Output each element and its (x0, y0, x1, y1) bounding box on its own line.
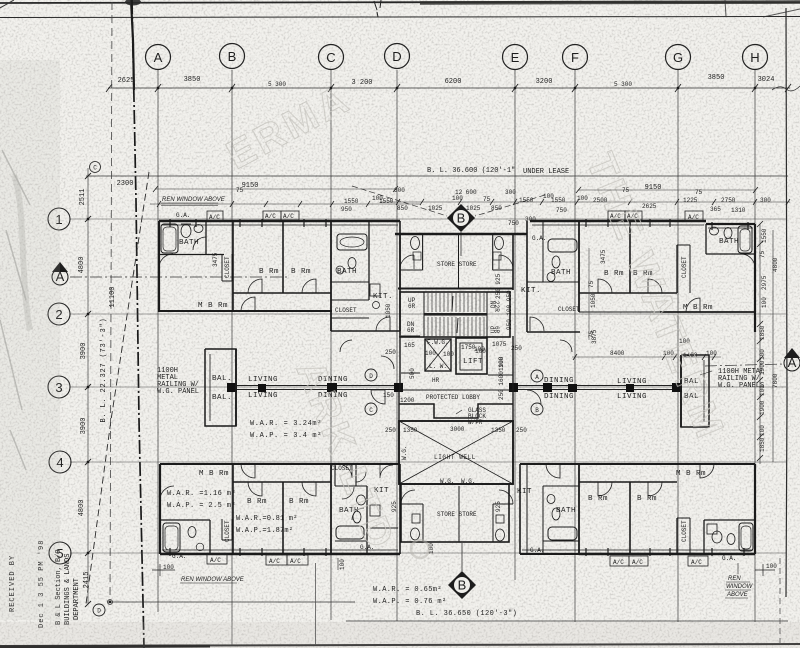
svg-text:B: B (535, 407, 539, 414)
svg-text:75: 75 (588, 280, 595, 288)
svg-text:BATH: BATH (551, 269, 571, 277)
svg-text:A/C: A/C (632, 559, 643, 566)
svg-text:BATH: BATH (337, 268, 357, 276)
svg-text:75: 75 (588, 330, 595, 338)
scan artifact: small diagonal top-left (0, 0, 14, 8)
light well box with cross (399, 421, 513, 484)
svg-text:B Rm: B Rm (637, 495, 657, 503)
svg-text:LIVING: LIVING (248, 392, 278, 400)
grid vertical line E (514, 70, 516, 580)
dashed vertical scan line bottom right (779, 558, 781, 645)
svg-text:100: 100 (577, 195, 588, 202)
svg-text:250 925: 250 925 (495, 273, 502, 299)
upper dim chain ticks (157, 199, 790, 207)
svg-text:DINING: DINING (544, 377, 574, 385)
svg-text:A: A (788, 355, 797, 370)
svg-text:9150: 9150 (645, 184, 662, 192)
store toilets upper center right (493, 237, 513, 270)
handwritten note bottom-left (180, 577, 245, 583)
svg-text:100: 100 (425, 350, 436, 357)
svg-text:D: D (97, 608, 101, 615)
svg-text:A/C: A/C (283, 213, 294, 220)
window inner line bottom wall left wing (162, 549, 398, 551)
dashed leader to diamond B top left (352, 186, 447, 216)
grid row line 3 (70, 386, 786, 388)
svg-text:100: 100 (339, 559, 346, 570)
grid circle G (666, 45, 691, 70)
svg-text:KIT: KIT (517, 488, 532, 496)
svg-text:CLOSET: CLOSET (558, 306, 580, 313)
a/c boxes lower left (207, 554, 308, 565)
window mullion ticks bottom (170, 548, 744, 556)
left margin pencil streaks (0, 150, 30, 470)
datum line bottom-left with circle (108, 600, 356, 605)
balcony left (205, 349, 236, 426)
svg-text:BAL.: BAL. (212, 394, 232, 402)
section marker triangle A right (705, 348, 800, 371)
svg-text:A: A (535, 374, 539, 381)
extra vertical scan line bottom center (315, 563, 317, 645)
building: lower band left wing walls (160, 464, 400, 554)
scan artifact: right edge vertical line (786, 8, 787, 597)
svg-text:6200: 6200 (445, 78, 462, 86)
glass block label (456, 407, 486, 426)
svg-text:250: 250 (385, 427, 396, 434)
grid circle 5 (49, 542, 71, 564)
svg-text:ABOVE: ABOVE (726, 592, 749, 598)
svg-text:1550: 1550 (519, 197, 534, 204)
svg-text:100: 100 (452, 195, 463, 202)
svg-text:W.A.R.=0.81 m²: W.A.R.=0.81 m² (236, 515, 298, 523)
9150 dim line left (153, 186, 398, 192)
property line: dark dash-dot from top to bottom (132, 0, 144, 648)
svg-text:100: 100 (474, 346, 485, 353)
svg-text:300: 300 (394, 187, 405, 194)
svg-text:3200: 3200 (536, 78, 553, 86)
building: lower band right column walls (520, 464, 579, 554)
svg-text:2300: 2300 (117, 180, 134, 188)
svg-text:750: 750 (556, 207, 567, 214)
WAR/WAP living area (250, 420, 322, 440)
svg-text:22R: 22R (493, 301, 500, 312)
svg-text:C: C (326, 50, 335, 65)
svg-text:925: 925 (391, 501, 398, 512)
door arcs corridor (340, 340, 800, 404)
grid circle 2 (48, 303, 70, 325)
svg-text:D: D (392, 49, 401, 64)
handwritten note top-left: new window above (161, 197, 226, 206)
svg-text:LIVING: LIVING (617, 393, 647, 401)
svg-text:LIFT: LIFT (463, 358, 483, 366)
svg-text:B Rm: B Rm (588, 495, 608, 503)
svg-text:G.A.: G.A. (176, 212, 190, 219)
svg-text:3850: 3850 (184, 76, 201, 84)
grid vertical line A (157, 70, 159, 612)
faint watermark diagonal (220, 76, 733, 557)
svg-text:A/C: A/C (209, 214, 220, 221)
right dim chain ticks (757, 221, 763, 461)
grid circle E (503, 45, 528, 70)
svg-text:W.A.R. =1.16 m²: W.A.R. =1.16 m² (167, 490, 236, 498)
svg-text:3000: 3000 (450, 426, 465, 433)
svg-text:300: 300 (760, 197, 771, 204)
grid row line 4 (70, 461, 786, 463)
svg-text:4800: 4800 (78, 257, 86, 274)
left dim chain vertical line x=88 (87, 168, 89, 604)
door arcs lower band (160, 464, 714, 520)
svg-text:1025: 1025 (466, 205, 481, 212)
svg-text:F: F (571, 50, 579, 65)
grid vertical line F (574, 70, 576, 622)
svg-text:BATH: BATH (556, 507, 576, 515)
svg-text:850: 850 (397, 205, 408, 212)
building: upper band right wing walls (530, 221, 755, 332)
svg-text:300: 300 (525, 216, 536, 223)
svg-text:A/C: A/C (269, 558, 280, 565)
svg-text:G: G (673, 50, 683, 65)
grid circle H (743, 45, 768, 70)
bath fixtures upper-right: sink toilet tub (710, 226, 753, 253)
svg-text:F.W.G.: F.W.G. (427, 339, 449, 346)
svg-text:1550: 1550 (379, 198, 394, 205)
9150 dim line right (576, 187, 758, 193)
svg-text:BATH: BATH (179, 239, 199, 247)
svg-text:B Rm: B Rm (604, 270, 624, 278)
WAR/WAP lower left 2 (236, 515, 298, 535)
top dimension line (108, 87, 790, 89)
svg-text:100: 100 (759, 385, 766, 396)
store mid divider (458, 234, 460, 288)
a/c boxes upper right wing (608, 211, 703, 221)
grid vertical line C (330, 70, 332, 620)
svg-text:250: 250 (511, 345, 522, 352)
circled door letter D (365, 369, 377, 381)
corridor lower wall line (236, 389, 681, 391)
svg-text:2625: 2625 (118, 77, 135, 85)
building: lower band right wing walls (520, 464, 755, 554)
svg-text:B Rm: B Rm (247, 498, 267, 506)
node circle c top-left (90, 162, 101, 173)
store toilets upper center left (400, 237, 421, 270)
building: upper band outer walls left wing (159, 221, 400, 331)
svg-text:100: 100 (759, 425, 766, 436)
svg-text:BATH: BATH (719, 238, 739, 246)
svg-text:500: 500 (409, 368, 416, 379)
svg-text:W.A.P. = 2.5 m²: W.A.P. = 2.5 m² (167, 502, 236, 510)
circled door letter B (531, 403, 543, 415)
svg-text:REN WINDOW ABOVE: REN WINDOW ABOVE (162, 197, 226, 203)
grid circle F (563, 45, 588, 70)
svg-text:W.A.P.=1.87m²: W.A.P.=1.87m² (236, 527, 293, 535)
svg-text:KIT.: KIT. (373, 293, 393, 301)
railing note left (157, 367, 199, 396)
WAR/WAP bottom center (373, 586, 447, 606)
svg-text:1550: 1550 (761, 228, 768, 243)
svg-text:1025: 1025 (428, 205, 443, 212)
squiggle right of H on dim line (772, 86, 800, 91)
svg-text:M B Rm: M B Rm (676, 470, 706, 478)
svg-text:H: H (750, 50, 759, 65)
circled door letter C (365, 403, 377, 415)
railing note right (718, 368, 764, 390)
grid row line 5 (70, 552, 786, 554)
svg-text:B Rm: B Rm (289, 498, 309, 506)
upper dim texts cluster (236, 187, 771, 227)
svg-text:L. W.: L. W. (429, 363, 447, 370)
bath fixtures lower mid-left (336, 464, 393, 539)
grid circle A (146, 45, 171, 70)
scan artifact: blob at top of heavy line (125, 0, 141, 6)
building: upper band right column walls (527, 221, 580, 332)
svg-text:DEPARTMENT: DEPARTMENT (73, 578, 81, 620)
svg-text:B: B (457, 211, 466, 226)
svg-text:W.G. PANEL: W.G. PANEL (157, 388, 199, 396)
svg-text:3024: 3024 (758, 76, 775, 84)
leader 100 bottom-left (152, 564, 175, 576)
svg-text:W.G.: W.G. (401, 446, 408, 460)
svg-text:W.A.P. = 0.76 m²: W.A.P. = 0.76 m² (373, 598, 447, 606)
svg-text:1310: 1310 (731, 207, 746, 214)
kitchen fixtures lower right column (547, 495, 577, 541)
stairs block (400, 292, 510, 337)
svg-text:M B Rm: M B Rm (198, 302, 228, 310)
svg-text:1200: 1200 (400, 397, 415, 404)
svg-text:3900: 3900 (80, 418, 88, 435)
svg-text:LIGHT WELL: LIGHT WELL (434, 454, 476, 461)
right dim chain vertical lines (760, 224, 773, 464)
svg-text:4800: 4800 (772, 257, 779, 272)
svg-text:1550: 1550 (551, 197, 566, 204)
svg-text:W.A.P. = 3.4 m²: W.A.P. = 3.4 m² (250, 432, 322, 440)
mid dim texts right (610, 338, 717, 359)
svg-text:5 300: 5 300 (614, 81, 632, 88)
kitchen upper-left fixtures (370, 284, 380, 309)
dashed leader to diamond B top right (475, 195, 545, 216)
svg-text:B. L. 36.600 (120'-1": B. L. 36.600 (120'-1" (427, 167, 515, 175)
svg-text:3900: 3900 (80, 343, 88, 360)
svg-text:100: 100 (443, 351, 454, 358)
section marker diamond B top (447, 204, 475, 256)
svg-text:W.A.R. = 0.65m²: W.A.R. = 0.65m² (373, 586, 442, 594)
svg-text:2415: 2415 (83, 572, 91, 589)
a/c boxes upper left wing (263, 211, 299, 220)
svg-text:1075: 1075 (492, 341, 507, 348)
svg-text:75: 75 (483, 196, 491, 203)
left dim chain ticks (85, 173, 91, 607)
corridor upper wall line (236, 385, 681, 387)
dim cluster near D grid (383, 342, 415, 404)
svg-text:1850: 1850 (759, 325, 766, 340)
svg-text:75: 75 (759, 250, 766, 258)
svg-text:A/C: A/C (265, 213, 276, 220)
bath fixtures upper-left: sink (194, 225, 203, 233)
svg-text:1225: 1225 (683, 197, 698, 204)
svg-text:100: 100 (766, 563, 777, 570)
svg-text:3475: 3475 (212, 252, 219, 267)
svg-text:3475: 3475 (600, 249, 607, 264)
svg-text:365: 365 (710, 206, 721, 213)
svg-text:250: 250 (385, 349, 396, 356)
svg-text:75: 75 (236, 187, 244, 194)
section marker diamond B bottom (448, 543, 476, 599)
svg-text:BUILDINGS & LANDS: BUILDINGS & LANDS (64, 554, 72, 625)
scan artifact: top tick marks near x=375 (374, 0, 381, 17)
svg-text:1900: 1900 (759, 360, 766, 375)
grid row line 1 (70, 218, 786, 220)
bath fixtures mid-left: tub horizontal (337, 234, 367, 250)
grid circle 3 (48, 376, 70, 398)
svg-text:B: B (458, 578, 467, 593)
svg-text:3850: 3850 (708, 74, 725, 82)
scan artifact: bottom-left darker segment (0, 646, 210, 647)
svg-text:CLOSET: CLOSET (681, 256, 688, 278)
mid dim line right (8400 row) (572, 354, 721, 360)
svg-text:1550: 1550 (344, 198, 359, 205)
window inner line top wall right wing (532, 225, 753, 228)
left boundary small vertical line x=110 (110, 2, 112, 601)
svg-text:HR: HR (432, 377, 440, 384)
grid vertical line D (396, 70, 398, 621)
protected lobby walls (399, 390, 513, 421)
svg-text:G.A.: G.A. (530, 547, 544, 554)
svg-text:925: 925 (495, 501, 502, 512)
svg-text:LIVING: LIVING (248, 376, 278, 384)
circled door letter A (531, 370, 543, 382)
grid vertical line G (677, 70, 679, 622)
svg-text:1350: 1350 (403, 427, 418, 434)
svg-text:4800: 4800 (78, 500, 86, 517)
svg-text:6R: 6R (408, 303, 416, 310)
svg-text:6R: 6R (493, 326, 500, 334)
bath fixtures upper-left: tub (161, 224, 178, 253)
svg-text:CLOSET: CLOSET (224, 256, 231, 278)
scan artifact: top dark streak right (420, 2, 800, 3)
window inner line bottom wall right wing (522, 549, 753, 551)
scan artifact: top horizontal line 1 (0, 2, 800, 3)
door arcs upper band (159, 237, 800, 331)
grid vertical line H (754, 70, 756, 622)
right dim chain rotated texts (759, 228, 779, 452)
svg-text:250 1600 100: 250 1600 100 (498, 356, 505, 400)
bottom lease line (346, 620, 788, 622)
svg-text:A/C: A/C (613, 559, 624, 566)
svg-text:165: 165 (404, 342, 415, 349)
svg-text:100: 100 (759, 349, 766, 360)
svg-text:CLOSET: CLOSET (681, 520, 688, 542)
bath fixtures upper-left: toilet (181, 224, 191, 238)
svg-text:6R: 6R (407, 327, 415, 334)
a/c boxes lower right (610, 556, 708, 566)
scan artifact: top-left vertical heavy line (131, 0, 134, 90)
svg-text:G.A.: G.A. (532, 235, 546, 242)
svg-text:A/C: A/C (688, 214, 699, 221)
svg-text:B Rm: B Rm (259, 268, 279, 276)
svg-text:950: 950 (341, 206, 352, 213)
section marker triangle A left (52, 262, 290, 285)
svg-text:5 300: 5 300 (268, 81, 286, 88)
svg-text:STORE STORE: STORE STORE (437, 261, 477, 268)
svg-text:CLOSET: CLOSET (224, 520, 231, 542)
svg-text:3 200: 3 200 (351, 79, 372, 87)
svg-text:A/C: A/C (691, 559, 702, 566)
grid circle D (385, 44, 410, 69)
edge gray tint left (0, 60, 60, 620)
svg-text:2975: 2975 (761, 275, 768, 290)
store block below light well (401, 484, 513, 542)
node circle D bottom-left (93, 604, 105, 616)
svg-text:1050: 1050 (590, 293, 597, 308)
upper dim chain line (150, 202, 790, 204)
grid row line 2 (70, 313, 786, 315)
grid circle B (220, 44, 245, 69)
svg-text:UNDER LEASE: UNDER LEASE (523, 168, 569, 176)
svg-text:100: 100 (706, 350, 717, 357)
bath fixtures right column upper (547, 239, 577, 282)
svg-text:REN: REN (728, 576, 741, 582)
svg-text:2750: 2750 (721, 197, 736, 204)
WAR/WAP lower left 1 (167, 490, 236, 510)
svg-text:250: 250 (516, 427, 527, 434)
svg-text:1900: 1900 (759, 400, 766, 415)
light well dims (385, 426, 527, 434)
svg-text:1350: 1350 (491, 427, 506, 434)
balcony right (681, 355, 709, 427)
window mullion ticks top left wing (170, 219, 326, 227)
svg-text:B Rm: B Rm (291, 268, 311, 276)
svg-text:100: 100 (163, 564, 174, 571)
W.G. shaft with cross (425, 339, 451, 371)
railing leader right (700, 371, 712, 375)
corridor junction blocks (227, 383, 682, 392)
left margin smudge (14, 175, 30, 330)
junction dots on top dimension line (157, 87, 756, 89)
svg-text:2511: 2511 (79, 189, 87, 206)
rotated 100 dim near center bottom (338, 558, 346, 570)
edge gray tint bottom (0, 622, 800, 648)
grid circle 1 (48, 208, 70, 230)
svg-text:100: 100 (761, 297, 768, 308)
junction dots on left grid rows (87, 218, 111, 603)
svg-text:B. L. 22.327 (73'-3"): B. L. 22.327 (73'-3") (100, 317, 108, 422)
svg-text:STORE STORE: STORE STORE (437, 511, 477, 518)
building: upper band center core walls (395, 234, 527, 290)
svg-text:W/FR: W/FR (468, 419, 483, 426)
svg-text:E: E (511, 50, 520, 65)
bath fixtures lower-left: tub toilet (163, 523, 204, 552)
svg-text:1050: 1050 (385, 303, 392, 318)
svg-text:A/C: A/C (290, 558, 301, 565)
svg-text:300: 300 (505, 189, 516, 196)
handwritten note bottom-right 3 lines (725, 563, 754, 598)
bath fixtures lower-right (707, 523, 753, 551)
window inner line top wall left wing (162, 224, 398, 226)
core side walls mid (400, 336, 513, 390)
leader 100 bottom-right (755, 563, 777, 576)
svg-text:850: 850 (491, 205, 502, 212)
grid circle C (319, 45, 344, 70)
window mullion ticks top right wing (586, 219, 748, 230)
svg-text:D: D (369, 373, 373, 380)
svg-text:950 100 950: 950 100 950 (506, 290, 513, 330)
svg-text:KIT.: KIT. (521, 287, 541, 295)
boundary dashed diagonal line left (86, 172, 149, 604)
svg-text:150: 150 (383, 392, 394, 399)
svg-text:BAL.: BAL. (212, 375, 232, 383)
scan artifact: mark at x=725 top (725, 0, 800, 17)
svg-text:A/C: A/C (210, 557, 221, 564)
lift (456, 338, 487, 374)
svg-text:A: A (154, 50, 163, 65)
